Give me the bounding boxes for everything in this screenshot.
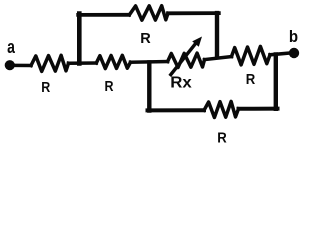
junction drop to bottom branch (left): [147, 63, 151, 111]
resistor R2: [96, 55, 130, 68]
terminal a (dot): [5, 60, 15, 70]
bottom wire left segment: [148, 108, 205, 112]
svg-text:R: R: [41, 79, 50, 96]
svg-text:Rx: Rx: [170, 75, 192, 92]
bottom branch right riser: [274, 55, 278, 109]
wire R2 to Rx (through bottom-branch junction): [131, 60, 168, 64]
svg-text:R: R: [217, 130, 227, 145]
svg-text:a: a: [7, 36, 15, 57]
variable resistor Rx: [168, 53, 205, 67]
resistor R1: [31, 55, 69, 71]
bottom wire right segment: [239, 107, 278, 111]
Rx wiper arrow shaft: [171, 43, 196, 75]
svg-text:R: R: [140, 30, 151, 47]
junction riser to top branch (left): [77, 14, 82, 64]
resistor Rbottom: [204, 101, 239, 117]
wire top-left corner to Rtop: [78, 13, 129, 17]
svg-text:R: R: [105, 78, 114, 95]
wire a to R1: [12, 64, 31, 68]
svg-text:R: R: [246, 71, 256, 88]
wire Rtop to top-right corner: [168, 11, 219, 15]
Rx wiper arrowhead: [192, 37, 202, 47]
resistor Rtop: [129, 6, 168, 21]
wire R1 to R2 (through junction): [69, 61, 97, 65]
svg-text:b: b: [289, 28, 298, 46]
wire Rx to R4 (through top-branch right junction): [205, 57, 232, 60]
top branch right riser down to main wire: [215, 13, 219, 56]
resistor R4: [232, 46, 271, 65]
terminal b (dot): [289, 48, 299, 58]
wire R4 to b (through bottom-branch right junction): [270, 53, 291, 55]
